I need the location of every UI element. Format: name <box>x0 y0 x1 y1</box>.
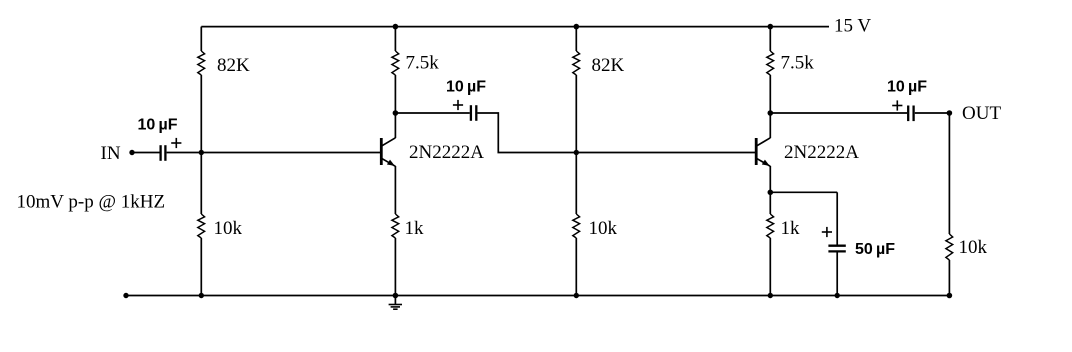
resistor R5 82K <box>573 51 580 75</box>
wire: stage1 collector column upper (rail to 7.5k) <box>394 27 396 51</box>
wire: +15V top supply rail <box>201 26 829 28</box>
ground symbol <box>389 296 402 310</box>
capacitor C2 10uF coupling plates <box>471 105 476 121</box>
svg-text:7.5k: 7.5k <box>406 53 440 74</box>
wire: Q2 emitter node to C4 <box>770 191 837 193</box>
resistor R3 7.5k <box>392 51 399 75</box>
svg-text:2N2222A: 2N2222A <box>784 142 859 163</box>
plus sign of C1 <box>171 138 181 148</box>
node: ground rail at C4 <box>835 293 840 298</box>
resistor R9 10k load <box>946 234 953 260</box>
wire: R4 to ground rail <box>394 238 396 296</box>
wire: Q2 collector node to C3 <box>770 112 907 114</box>
svg-text:7.5k: 7.5k <box>781 53 815 74</box>
node: ground rail left end <box>123 293 128 298</box>
transistor Q2 2N2222A <box>756 138 770 167</box>
wire: C1 to stage1 base node <box>167 152 202 154</box>
resistor R6 10k <box>573 214 580 238</box>
wire: Q1 collector node to C2 <box>395 112 469 114</box>
svg-text:50 µF: 50 µF <box>855 241 895 258</box>
resistor R1 82K <box>198 51 205 75</box>
svg-text:10 µF: 10 µF <box>887 78 927 95</box>
plus sign of C4 <box>822 227 832 237</box>
svg-text:82K: 82K <box>217 55 250 76</box>
wire: stage1 divider lower segment (10k to ground rail) <box>200 238 202 296</box>
node: ground rail at stage2 divider <box>574 293 579 298</box>
svg-text:10k: 10k <box>214 218 243 239</box>
resistor R2 10k <box>198 214 205 238</box>
node: IN terminal dot <box>129 150 134 155</box>
node: rail junction at stage2 collector column <box>768 24 774 30</box>
wire: stage2 divider lower segment <box>575 238 577 296</box>
resistor R4 1k <box>392 214 399 238</box>
wire: OUT node down to R9 <box>948 113 950 234</box>
svg-text:2N2222A: 2N2222A <box>409 142 484 163</box>
plus sign of C2 <box>453 100 463 110</box>
wire: C2 to stage2 base (right, down, right) <box>478 113 757 153</box>
wire: stage2 collector column upper (rail to 7.5k) <box>769 27 771 51</box>
capacitor C4 50uF bypass plates <box>828 246 845 252</box>
svg-text:1k: 1k <box>781 218 801 239</box>
node: ground rail at Q2 emitter column <box>768 293 773 298</box>
wire: R8 to ground rail <box>769 238 771 296</box>
wire: 7.5k to Q1 collector (through collector node) <box>394 75 396 138</box>
wire: Q2 emitter down through emitter node to R8 <box>769 166 771 214</box>
resistor R8 1k <box>767 214 774 238</box>
wire: stage2 divider column upper (rail to 82K) <box>575 27 577 51</box>
wire: IN terminal to C1 <box>132 152 160 154</box>
svg-text:10k: 10k <box>959 237 988 258</box>
svg-text:82K: 82K <box>592 55 625 76</box>
svg-text:10k: 10k <box>589 218 618 239</box>
wire: stage1 divider column upper (rail to 82K) <box>200 27 202 51</box>
wire: down to C4 top plate <box>836 192 838 245</box>
node: Q2 emitter junction <box>768 190 774 196</box>
node: rail junction at stage1 collector column <box>393 24 399 30</box>
svg-text:10 µF: 10 µF <box>446 79 486 96</box>
wire: bottom ground rail <box>126 295 949 297</box>
node: ground rail right end at R9 <box>947 293 953 299</box>
capacitor C3 10uF output plates <box>908 106 913 122</box>
svg-text:15 V: 15 V <box>834 16 871 37</box>
wire: stage1 divider mid segment (82K to 10k through base node) <box>200 75 202 214</box>
wire: stage1 base node to Q1 base <box>201 152 381 154</box>
wire: C3 to OUT node <box>915 112 950 114</box>
node: ground rail at Q1 emitter column (ground point) <box>393 293 399 299</box>
svg-text:1k: 1k <box>405 218 425 239</box>
wire: R9 to ground rail <box>948 260 950 296</box>
capacitor C1 10uF input plates <box>161 145 166 161</box>
plus sign of C3 <box>892 100 902 110</box>
wire: Q1 emitter down to R4 <box>394 166 396 214</box>
resistor R7 7.5k <box>767 51 774 75</box>
node: rail junction at stage2 divider <box>574 24 580 30</box>
svg-text:OUT: OUT <box>962 103 1001 124</box>
wire: stage2 divider mid segment <box>575 75 577 214</box>
node: OUT terminal junction <box>947 110 953 116</box>
svg-text:IN: IN <box>101 143 121 164</box>
node: stage2 base junction <box>574 150 579 155</box>
node: Q1 collector junction <box>393 110 399 116</box>
node: Q2 collector junction <box>768 110 774 116</box>
node: ground rail at stage1 divider <box>199 293 204 298</box>
svg-text:10mV p-p @ 1kHZ: 10mV p-p @ 1kHZ <box>17 192 166 213</box>
node: stage1 base junction <box>199 150 204 155</box>
wire: C4 bottom plate to ground rail <box>836 252 838 296</box>
svg-text:10 µF: 10 µF <box>138 117 178 134</box>
transistor Q1 2N2222A <box>381 138 395 167</box>
wire: 7.5k to Q2 collector <box>769 75 771 138</box>
